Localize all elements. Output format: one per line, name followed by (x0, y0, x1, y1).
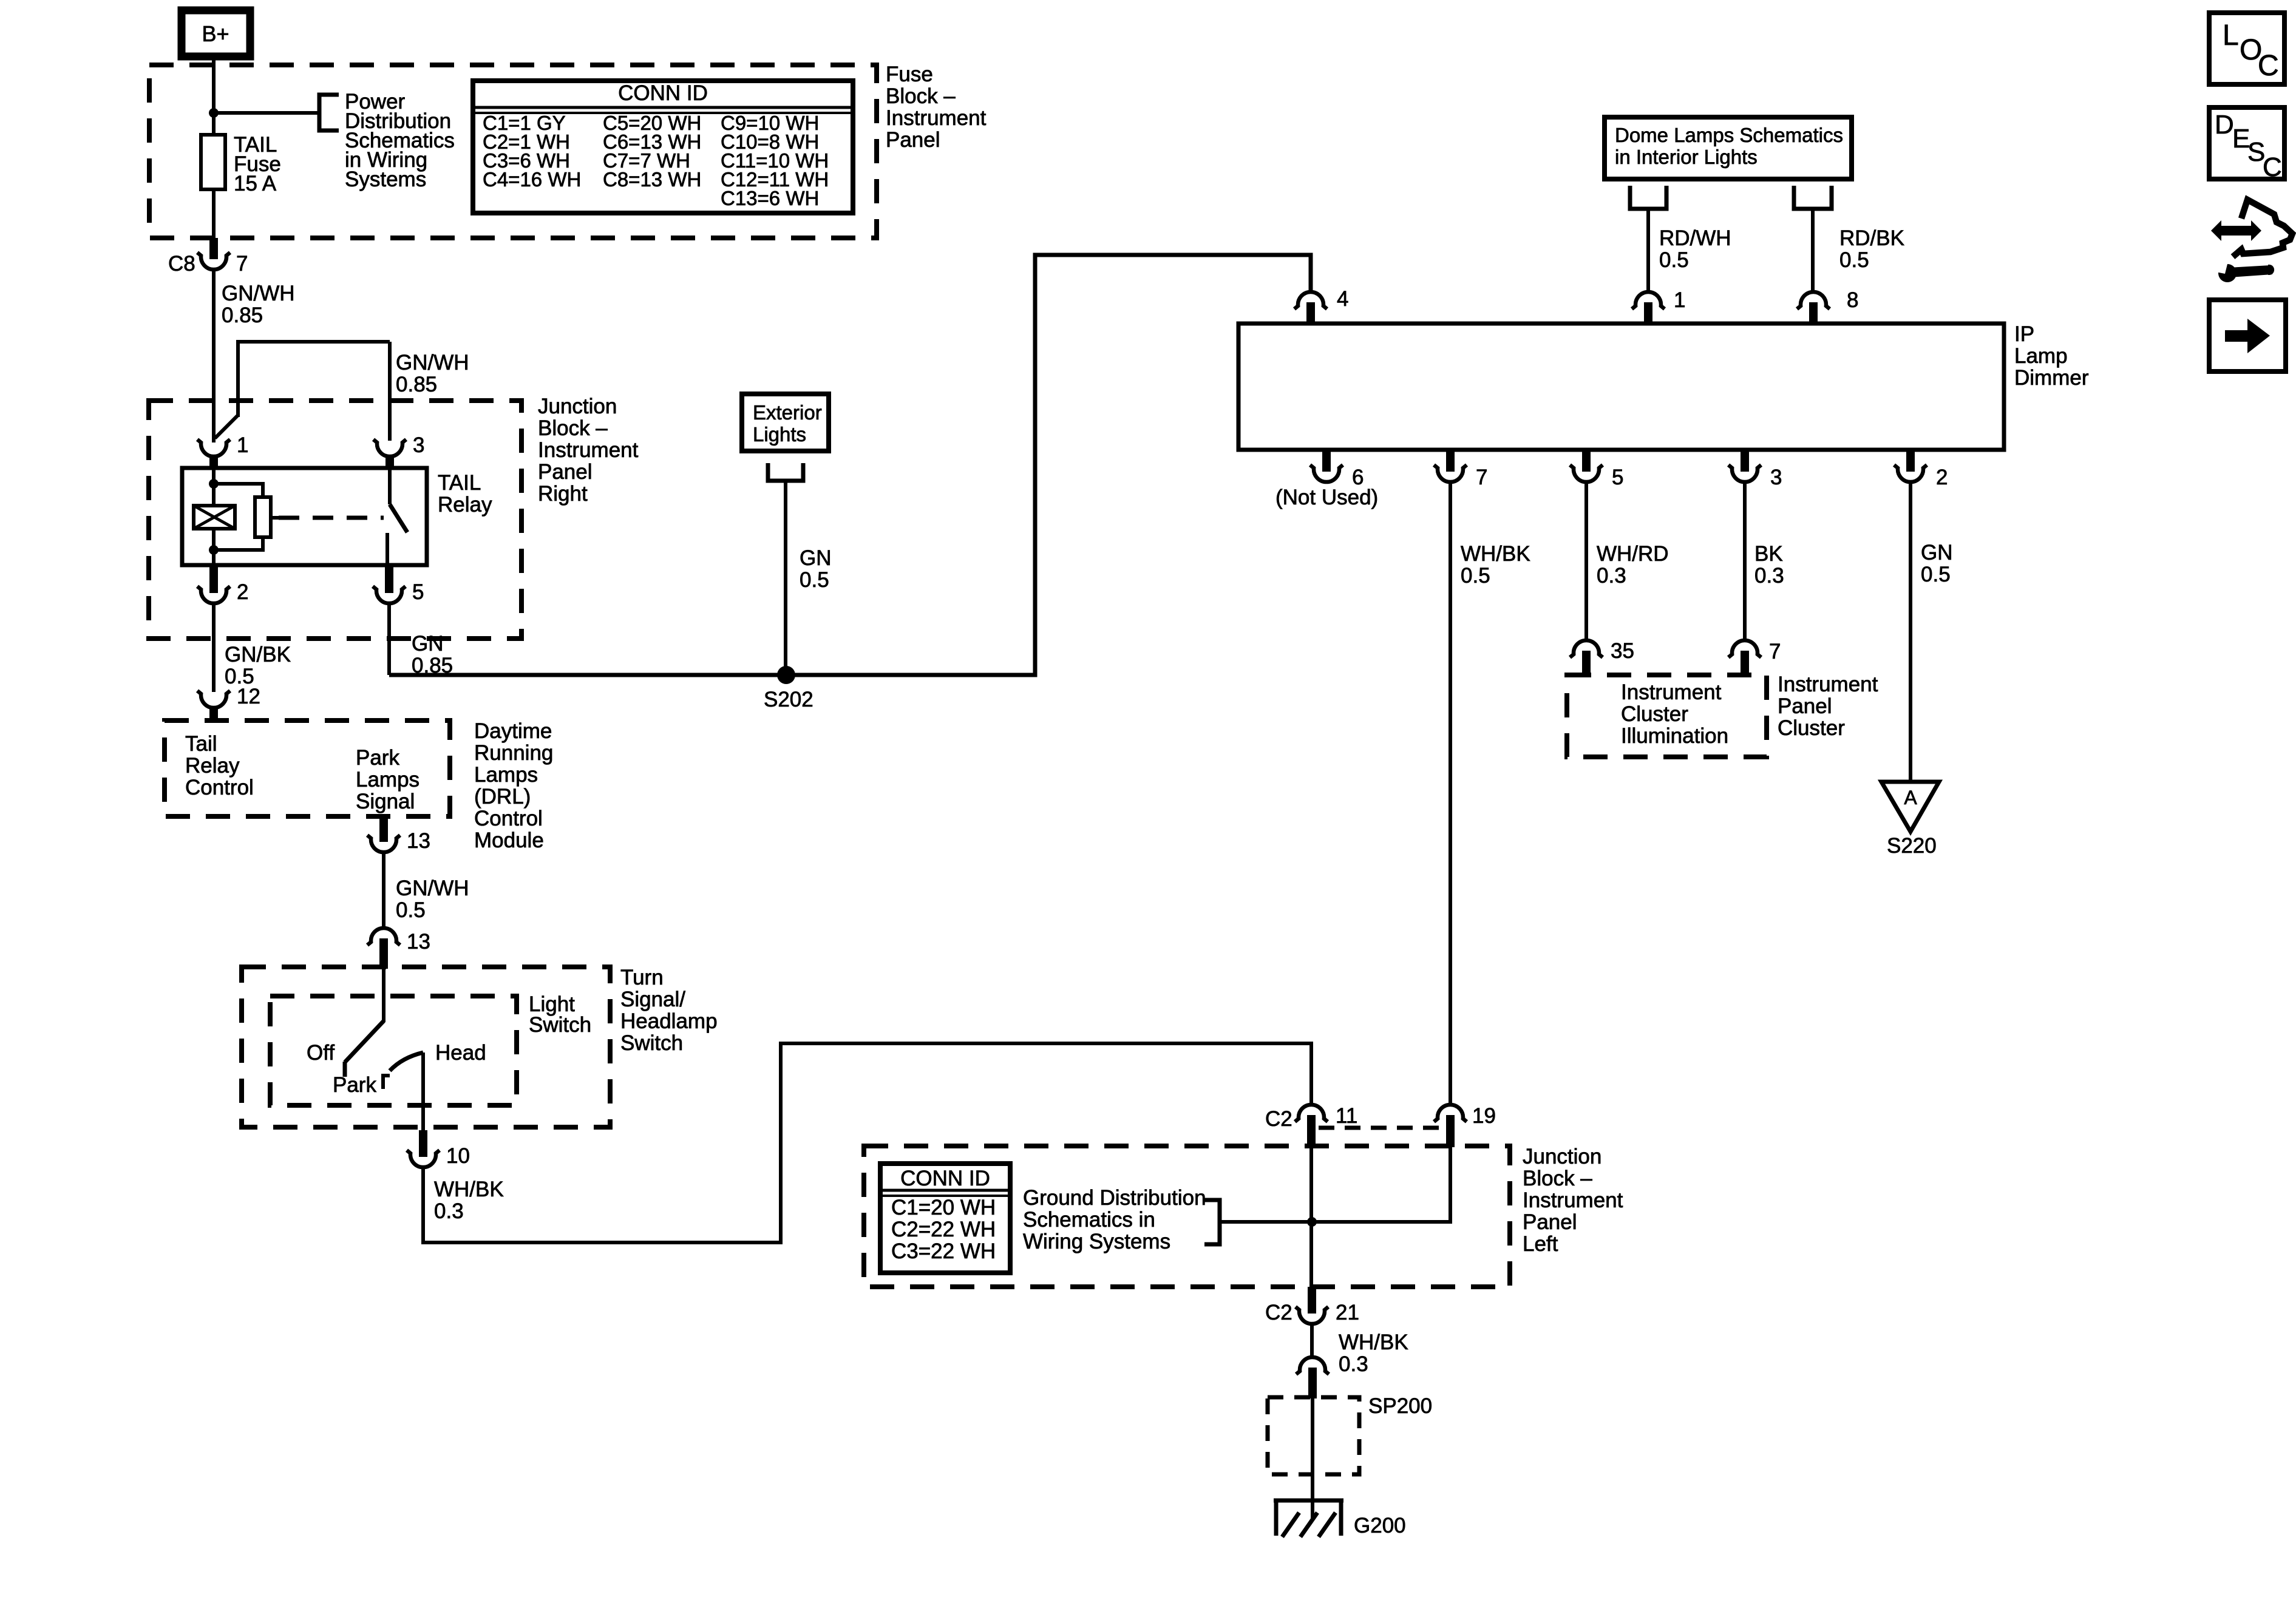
connector pin 5 stub bottom (1582, 450, 1591, 472)
connector C2 pin 11 stub (1307, 1115, 1316, 1147)
wire branch diagonal to relay coil feed (215, 415, 238, 438)
svg-text:C: C (2263, 152, 2282, 182)
svg-text:G200: G200 (1354, 1514, 1406, 1537)
svg-text:Instrument: Instrument (1778, 673, 1878, 696)
connector 10 terminal arc (407, 1150, 440, 1167)
svg-text:C3=22 WH: C3=22 WH (891, 1239, 996, 1263)
dashed relay actuator link (279, 516, 384, 520)
svg-text:Panel: Panel (886, 128, 940, 152)
svg-text:1: 1 (1674, 288, 1685, 312)
connector 7 cluster stub (1741, 651, 1749, 677)
icon forward arrow box (2209, 300, 2286, 371)
svg-text:Control: Control (474, 807, 543, 830)
wire GN 0.85 below connector 5 (387, 603, 391, 675)
light switch Park contact (383, 1076, 390, 1089)
svg-text:C4=16 WH: C4=16 WH (483, 168, 581, 191)
svg-text:Instrument: Instrument (1523, 1188, 1623, 1212)
svg-text:C13=6 WH: C13=6 WH (721, 187, 819, 209)
svg-text:10: 10 (446, 1144, 470, 1168)
connector 19 stub (1446, 1115, 1455, 1147)
splice S202 node (777, 666, 795, 684)
svg-text:SP200: SP200 (1368, 1394, 1432, 1418)
relay coil element X (194, 506, 235, 529)
wire WH/RD 0.3 from pin 5 (1584, 482, 1588, 641)
svg-text:0.3: 0.3 (1597, 564, 1626, 588)
wire WH/BK 0.3 run to junction block (423, 1043, 1311, 1242)
svg-text:Instrument: Instrument (886, 106, 987, 130)
svg-text:WH/RD: WH/RD (1597, 542, 1669, 566)
wire branch top run (236, 340, 390, 344)
svg-text:GN/WH: GN/WH (396, 876, 469, 900)
svg-text:Block –: Block – (1523, 1167, 1592, 1190)
svg-text:GN: GN (800, 546, 832, 570)
svg-text:Park: Park (333, 1073, 376, 1097)
svg-text:0.5: 0.5 (1659, 248, 1689, 272)
wire GN/WH 0.5 between 13s (382, 852, 385, 928)
connector C2 pin 11 terminal arc (1295, 1105, 1328, 1122)
svg-text:L: L (2223, 19, 2239, 52)
light switch blade to Off (345, 1021, 384, 1062)
svg-text:Switch: Switch (620, 1031, 683, 1055)
svg-text:13: 13 (407, 829, 430, 853)
fuse TAIL Fuse 15 A symbol (201, 135, 225, 189)
svg-text:Switch: Switch (529, 1013, 591, 1037)
svg-text:Lights: Lights (753, 423, 806, 446)
svg-text:C2: C2 (1265, 1301, 1292, 1324)
svg-text:3: 3 (1770, 466, 1782, 489)
svg-text:RD/BK: RD/BK (1839, 226, 1904, 250)
connector 1 terminal arc (197, 439, 230, 456)
svg-text:D: D (2215, 110, 2234, 140)
relay coil element box (194, 506, 235, 529)
svg-text:Signal/: Signal/ (620, 988, 685, 1011)
svg-text:C2: C2 (1265, 1107, 1292, 1131)
connector C8 terminal arc (197, 253, 230, 269)
wire resistor actuator stub (271, 516, 279, 520)
svg-text:2: 2 (1936, 466, 1948, 489)
connector 3 terminal arc (373, 439, 406, 456)
battery feed B+ terminal box (182, 10, 250, 56)
wire resistor branch bottom (214, 535, 263, 550)
svg-text:7: 7 (236, 252, 248, 276)
svg-text:35: 35 (1611, 639, 1634, 663)
connector pin 3 stub bottom (1741, 450, 1749, 472)
wire light switch feed (382, 967, 385, 1022)
connector pin 2 stub bottom (1906, 450, 1915, 472)
connector pin 1 stub (1644, 302, 1652, 324)
svg-text:0.5: 0.5 (1921, 563, 1951, 586)
svg-text:Head: Head (435, 1041, 486, 1065)
svg-text:C2=22 WH: C2=22 WH (891, 1218, 996, 1241)
svg-text:WH/BK: WH/BK (1461, 542, 1530, 566)
dashed box SP200 splice pack (1268, 1397, 1359, 1474)
icon service double arrow (2211, 220, 2261, 241)
svg-text:0.3: 0.3 (434, 1199, 464, 1223)
svg-text:C8=13 WH: C8=13 WH (603, 168, 701, 191)
connector C2 pin 21 terminal arc (1296, 1307, 1328, 1324)
connector 1 stub to relay (209, 455, 218, 470)
svg-text:GN: GN (412, 632, 444, 656)
wire branch left leg (236, 342, 240, 417)
connector pin 8 terminal arc (1797, 292, 1830, 309)
off-page bracket exterior lights (768, 463, 803, 481)
wire RD/WH 0.5 (1646, 209, 1650, 292)
dashed box Junction Block - Instrument Panel Left (864, 1146, 1510, 1287)
svg-text:Dimmer: Dimmer (2014, 366, 2089, 390)
connector 2 terminal arc (197, 586, 230, 603)
table CONN ID header separator (473, 106, 853, 109)
connector pin 6 terminal arc bottom (1310, 465, 1343, 482)
svg-text:Dome Lamps Schematics: Dome Lamps Schematics (1615, 124, 1843, 146)
wire GN 0.5 from pin 2 (1909, 482, 1912, 783)
connector pin 2 terminal arc bottom (1894, 465, 1927, 482)
wire WH/BK 0.3 below C2-21 (1310, 1324, 1314, 1357)
wire pin 19 to ground bus (1312, 1147, 1450, 1222)
svg-text:Tail: Tail (185, 732, 217, 756)
svg-text:0.85: 0.85 (396, 373, 437, 396)
svg-text:2: 2 (237, 580, 248, 604)
wire through SP200 to ground (1311, 1397, 1314, 1520)
connector 2 stub (209, 565, 218, 593)
svg-text:0.5: 0.5 (1839, 248, 1869, 272)
connector 5 stub (385, 565, 393, 593)
light switch Head blade curve (390, 1053, 423, 1071)
svg-text:7: 7 (1476, 466, 1487, 489)
wire WH/BK 0.5 from pin 7 (1449, 482, 1452, 1105)
wire pin 11 down through junction block (1309, 1146, 1313, 1290)
wire GN 0.85 run to IP lamp dimmer (389, 255, 1311, 675)
table CONN ID jb-left header separator (880, 1189, 1010, 1192)
svg-text:Illumination: Illumination (1621, 724, 1728, 748)
ground G200 symbol (1274, 1499, 1343, 1503)
svg-text:4: 4 (1337, 287, 1348, 311)
svg-text:BK: BK (1754, 542, 1783, 566)
icon forward arrow (2225, 330, 2248, 342)
svg-text:RD/WH: RD/WH (1659, 226, 1731, 250)
off-page bracket dome lamps right (1794, 186, 1832, 209)
svg-text:Signal: Signal (356, 790, 415, 813)
svg-text:Lamps: Lamps (356, 768, 419, 792)
svg-text:Left: Left (1523, 1232, 1558, 1256)
svg-text:0.3: 0.3 (1339, 1352, 1368, 1376)
wire RD/BK 0.5 (1811, 209, 1815, 292)
svg-text:15 A: 15 A (234, 172, 277, 195)
wire GN/WH 0.85 from C8 (212, 269, 216, 442)
table CONN ID jb-left frame (880, 1164, 1010, 1273)
svg-text:CONN ID: CONN ID (618, 81, 708, 105)
svg-text:(DRL): (DRL) (474, 785, 531, 808)
svg-text:12: 12 (237, 685, 260, 708)
node splice on B+ feed (209, 108, 219, 118)
light switch Off contact tick (343, 1062, 347, 1077)
svg-text:Module: Module (474, 829, 544, 852)
svg-text:Relay: Relay (438, 493, 492, 517)
connector pin 5 terminal arc bottom (1570, 465, 1603, 482)
svg-text:Panel: Panel (1778, 694, 1832, 718)
node relay coil top splice (209, 479, 219, 489)
off-page bracket dome lamps left (1630, 186, 1666, 209)
svg-text:GN/WH: GN/WH (396, 351, 469, 375)
svg-text:GN/BK: GN/BK (225, 643, 291, 666)
svg-text:Lamps: Lamps (474, 763, 538, 787)
table CONN ID fuse block frame (473, 81, 853, 213)
wire BK 0.3 from pin 3 (1743, 482, 1747, 641)
svg-text:IP: IP (2014, 322, 2034, 346)
connector C2 pin 21 stub (1308, 1287, 1316, 1314)
svg-text:C8: C8 (168, 252, 195, 276)
wire branch right leg to connector 3 (388, 342, 392, 441)
svg-text:5: 5 (412, 580, 424, 604)
svg-text:Panel: Panel (1523, 1210, 1577, 1234)
TAIL relay box (182, 468, 427, 565)
svg-text:0.5: 0.5 (1461, 564, 1490, 588)
connector 13 upper stub (379, 816, 388, 842)
svg-text:WH/BK: WH/BK (1339, 1331, 1408, 1354)
svg-text:Wiring Systems: Wiring Systems (1023, 1230, 1170, 1253)
wire GN 0.5 to exterior lights (784, 481, 787, 675)
wire relay coil top (212, 468, 216, 506)
svg-text:Junction: Junction (538, 395, 617, 418)
svg-text:Daytime: Daytime (474, 719, 552, 743)
svg-text:B+: B+ (202, 21, 229, 46)
wire relay switch output (385, 533, 389, 565)
svg-text:Junction: Junction (1523, 1145, 1601, 1168)
connector 35 stub (1582, 651, 1591, 677)
svg-text:19: 19 (1472, 1104, 1496, 1128)
connector pin 4 stub (1306, 302, 1315, 324)
box IP Lamp Dimmer (1238, 324, 2004, 450)
svg-text:Block –: Block – (886, 84, 956, 108)
svg-text:Instrument: Instrument (538, 438, 639, 462)
connector pin 1 terminal arc (1632, 292, 1665, 309)
dashed box Light Switch (270, 996, 517, 1105)
box Exterior Lights (742, 394, 829, 451)
svg-text:13: 13 (407, 930, 430, 954)
connector 5 terminal arc (373, 586, 406, 603)
wire fuse to connector C8 (212, 189, 216, 242)
svg-text:5: 5 (1612, 466, 1623, 489)
svg-text:Cluster: Cluster (1621, 702, 1688, 726)
svg-text:C1=20 WH: C1=20 WH (891, 1196, 996, 1219)
connector 35 terminal arc (1570, 640, 1603, 657)
icon DESC box (2209, 107, 2284, 179)
svg-text:Schematics in: Schematics in (1023, 1208, 1155, 1232)
relay switch blade (390, 504, 407, 532)
connector pin 7 stub bottom (1446, 450, 1455, 472)
svg-text:(Not Used): (Not Used) (1275, 486, 1378, 509)
svg-text:Headlamp: Headlamp (620, 1009, 718, 1033)
svg-text:TAIL: TAIL (438, 471, 481, 495)
connector 12 terminal arc (197, 691, 230, 708)
connector pin 6 stub bottom (1322, 450, 1331, 472)
svg-text:GN/WH: GN/WH (222, 282, 295, 305)
svg-text:8: 8 (1847, 288, 1858, 312)
wire relay coil bottom (212, 529, 216, 565)
wire note bracket to ground bus (1220, 1220, 1312, 1224)
svg-text:Turn: Turn (620, 966, 664, 989)
wire branch to power distribution note (214, 111, 319, 115)
connector SP200 terminal arc (1296, 1357, 1329, 1374)
connector pin 7 terminal arc bottom (1434, 465, 1467, 482)
svg-text:7: 7 (1769, 640, 1781, 663)
svg-text:Ground Distribution: Ground Distribution (1023, 1186, 1206, 1210)
connector pin 8 stub (1809, 302, 1818, 324)
node relay coil bottom splice (209, 545, 219, 555)
dashed box Turn Signal / Headlamp Switch (242, 967, 610, 1127)
dashed box DRL control module (165, 720, 450, 816)
svg-text:Relay: Relay (185, 754, 240, 778)
svg-text:Running: Running (474, 741, 553, 765)
svg-text:Cluster: Cluster (1778, 716, 1845, 740)
svg-text:Exterior: Exterior (753, 401, 822, 424)
svg-text:Fuse: Fuse (886, 63, 933, 86)
connector 19 terminal arc (1434, 1105, 1467, 1122)
svg-text:Block –: Block – (538, 416, 608, 440)
connector 12 stub to DRL module (209, 707, 218, 723)
svg-text:A: A (1904, 787, 1917, 808)
bracket to Power Distribution Schematics note (319, 95, 339, 131)
svg-text:3: 3 (413, 433, 424, 457)
svg-text:0.5: 0.5 (800, 568, 829, 592)
relay resistor element (255, 497, 271, 537)
connector SP200 stub (1308, 1368, 1317, 1398)
svg-text:Panel: Panel (538, 460, 593, 484)
svg-text:in Interior Lights: in Interior Lights (1615, 146, 1758, 168)
svg-text:1: 1 (237, 433, 248, 457)
splice S220 triangle (1881, 782, 1939, 832)
wire resistor branch top (214, 484, 263, 499)
svg-text:S220: S220 (1887, 834, 1937, 858)
svg-text:CONN ID: CONN ID (900, 1167, 990, 1190)
svg-text:Lamp: Lamp (2014, 344, 2068, 368)
svg-text:0.85: 0.85 (222, 303, 263, 327)
svg-text:C: C (2258, 50, 2279, 82)
connector 3 stub to relay (385, 455, 394, 470)
dashed box Fuse Block - Instrument Panel (149, 65, 877, 238)
icon LOC box (2209, 13, 2284, 84)
svg-text:Off: Off (307, 1041, 335, 1065)
connector 13 lower terminal arc (367, 928, 400, 945)
connector 13 upper terminal arc (367, 835, 400, 852)
icon service panel outline (2233, 200, 2292, 257)
wire Head position down (421, 1053, 425, 1133)
svg-text:Park: Park (356, 746, 399, 770)
dashed box Instrument Cluster Illumination (1567, 675, 1767, 757)
svg-text:11: 11 (1336, 1104, 1357, 1128)
wire relay switch common (388, 470, 392, 504)
icon service wrench (2218, 264, 2237, 282)
svg-text:0.5: 0.5 (396, 898, 426, 922)
svg-text:S202: S202 (764, 688, 813, 711)
dashed box Junction Block - Instrument Panel Right (149, 401, 521, 639)
box Dome Lamps Schematics (1605, 117, 1852, 179)
svg-text:0.3: 0.3 (1754, 564, 1784, 588)
svg-text:WH/BK: WH/BK (434, 1178, 504, 1201)
connector pin 3 terminal arc bottom (1728, 465, 1761, 482)
svg-text:Instrument: Instrument (1621, 680, 1722, 704)
wire B+ down to fuse (212, 56, 216, 136)
svg-text:Systems: Systems (345, 168, 426, 191)
connector pin 4 terminal arc (1294, 292, 1327, 309)
connector 7 cluster terminal arc (1728, 640, 1761, 657)
connector C8 stub (209, 238, 218, 259)
node ground bus splice (1307, 1217, 1317, 1227)
svg-text:Control: Control (185, 776, 254, 799)
dashed internal link 11 to 19 (1319, 1126, 1445, 1130)
svg-text:GN: GN (1921, 541, 1953, 564)
svg-text:21: 21 (1336, 1301, 1359, 1324)
wire GN/BK 0.5 below connector 2 (212, 603, 216, 692)
connector 13 lower stub to light switch (379, 938, 388, 969)
connector 10 stub (419, 1130, 427, 1157)
bracket ground distribution note (1204, 1200, 1220, 1244)
svg-text:Right: Right (538, 482, 588, 506)
